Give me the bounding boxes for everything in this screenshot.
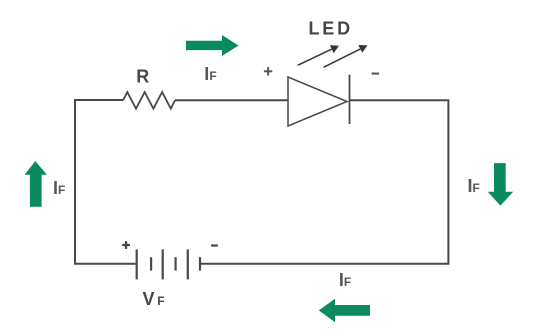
LED D1 triangle: [288, 77, 347, 126]
LED cathode - sign: [372, 73, 379, 75]
svg-text:R: R: [136, 67, 149, 87]
battery - terminal sign: [211, 244, 218, 246]
wire resistor to LED anode: [175, 99, 288, 101]
current arrow IF bottom (green, pointing left): [319, 299, 370, 323]
battery V1 plate tall 1: [136, 249, 138, 279]
battery V1 plate short 2: [175, 257, 177, 270]
LED anode + sign: [264, 67, 272, 75]
svg-text:VF: VF: [143, 289, 165, 309]
wire left loop (resistor to battery + terminal): [75, 100, 136, 264]
battery V1 plate tall 2: [162, 249, 164, 279]
svg-text:IF: IF: [339, 270, 351, 290]
battery V1 plate tall 3: [187, 249, 189, 279]
svg-text:LED: LED: [309, 19, 353, 39]
wire LED cathode to battery - terminal (right loop): [200, 100, 448, 263]
current arrow IF right (green, pointing down): [488, 163, 514, 206]
LED emission arrow 1: [298, 45, 339, 65]
battery V1 plate short 1: [150, 257, 152, 270]
LED emission arrow 2: [324, 45, 368, 67]
svg-text:IF: IF: [468, 176, 480, 196]
svg-text:IF: IF: [204, 64, 216, 84]
resistor R: [123, 92, 175, 109]
battery + terminal sign: [122, 241, 130, 249]
svg-text:IF: IF: [53, 178, 65, 198]
current arrow IF top (green, pointing right): [186, 35, 239, 56]
current arrow IF left (green, pointing up): [25, 161, 47, 207]
LED D1 cathode bar: [349, 75, 351, 124]
battery V1 plate short 3: [199, 257, 201, 270]
